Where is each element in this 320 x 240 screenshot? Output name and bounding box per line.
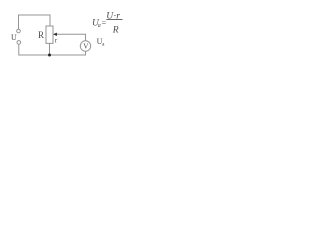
svg-text:R: R (112, 26, 119, 36)
svg-text:a: a (98, 23, 101, 29)
svg-text:U: U (11, 33, 17, 42)
svg-text:R: R (38, 30, 44, 40)
svg-text:V: V (83, 43, 89, 51)
